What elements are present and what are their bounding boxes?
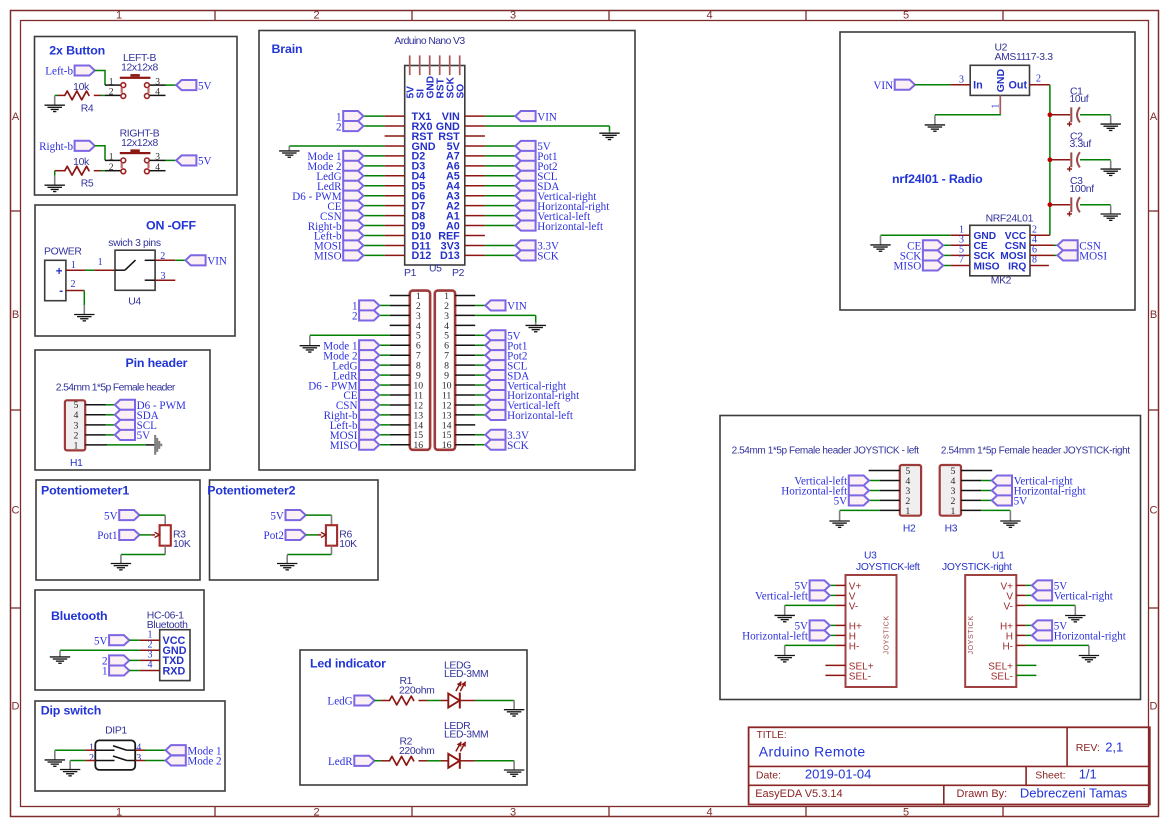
svg-text:JOYSTICK-right: JOYSTICK-right bbox=[942, 562, 1012, 573]
svg-text:IRQ: IRQ bbox=[1008, 261, 1026, 272]
svg-text:DIP1: DIP1 bbox=[105, 725, 127, 736]
svg-text:Vertical-left: Vertical-left bbox=[755, 591, 809, 603]
svg-text:MOSI: MOSI bbox=[1079, 251, 1107, 263]
svg-text:2: 2 bbox=[336, 121, 342, 133]
svg-text:3: 3 bbox=[161, 271, 166, 282]
svg-text:B: B bbox=[1150, 309, 1157, 321]
svg-text:1: 1 bbox=[990, 104, 1001, 109]
svg-text:Out: Out bbox=[1009, 79, 1028, 91]
svg-text:4: 4 bbox=[706, 806, 712, 818]
svg-text:1: 1 bbox=[116, 9, 122, 21]
svg-text:D: D bbox=[1150, 701, 1158, 713]
svg-text:2: 2 bbox=[109, 162, 114, 173]
svg-text:REV:: REV: bbox=[1076, 742, 1100, 754]
svg-text:3: 3 bbox=[510, 806, 516, 818]
svg-text:4: 4 bbox=[706, 9, 712, 21]
svg-text:5V: 5V bbox=[137, 430, 151, 442]
svg-text:D12: D12 bbox=[412, 250, 432, 262]
svg-text:3: 3 bbox=[510, 9, 516, 21]
svg-text:Mode 2: Mode 2 bbox=[187, 756, 221, 768]
svg-text:H1: H1 bbox=[70, 458, 83, 469]
svg-text:AMS1117-3.3: AMS1117-3.3 bbox=[995, 52, 1054, 63]
svg-text:Led indicator: Led indicator bbox=[310, 657, 386, 671]
svg-text:2.54mm 1*5p Female header: 2.54mm 1*5p Female header bbox=[56, 383, 176, 394]
svg-text:LED-3MM: LED-3MM bbox=[444, 729, 488, 740]
svg-text:A: A bbox=[12, 111, 20, 123]
svg-text:2: 2 bbox=[352, 311, 358, 323]
svg-text:16: 16 bbox=[413, 440, 423, 451]
svg-text:10K: 10K bbox=[173, 539, 191, 550]
svg-text:RXD: RXD bbox=[163, 665, 186, 677]
svg-text:SO: SO bbox=[455, 84, 466, 99]
svg-text:5V: 5V bbox=[198, 80, 212, 92]
svg-text:D13: D13 bbox=[440, 250, 460, 262]
svg-text:SCK: SCK bbox=[537, 251, 559, 263]
svg-text:swich 3 pins: swich 3 pins bbox=[108, 238, 161, 249]
svg-text:220ohm: 220ohm bbox=[399, 746, 434, 757]
svg-text:Horizontal-right: Horizontal-right bbox=[1054, 631, 1127, 643]
svg-text:100nf: 100nf bbox=[1070, 184, 1095, 195]
svg-text:5V: 5V bbox=[270, 510, 284, 522]
svg-text:Date:: Date: bbox=[756, 769, 781, 781]
svg-text:2: 2 bbox=[160, 251, 165, 262]
svg-text:EasyEDA V5.3.14: EasyEDA V5.3.14 bbox=[755, 788, 842, 800]
svg-text:NRF24L01: NRF24L01 bbox=[986, 213, 1034, 224]
svg-text:2.54mm 1*5p Female header JOYS: 2.54mm 1*5p Female header JOYSTICK - lef… bbox=[732, 446, 920, 457]
svg-text:8: 8 bbox=[1032, 255, 1037, 266]
svg-text:Potentiometer1: Potentiometer1 bbox=[41, 484, 129, 498]
svg-text:MISO: MISO bbox=[894, 261, 922, 273]
svg-text:1: 1 bbox=[950, 506, 955, 517]
svg-text:2: 2 bbox=[71, 279, 76, 290]
svg-text:Debreczeni Tamas: Debreczeni Tamas bbox=[1020, 786, 1128, 801]
svg-text:LedR: LedR bbox=[328, 756, 353, 768]
svg-text:Right-b: Right-b bbox=[39, 141, 73, 153]
svg-text:1: 1 bbox=[116, 806, 122, 818]
svg-text:2.54mm 1*5p Female header JOYS: 2.54mm 1*5p Female header JOYSTICK-right bbox=[941, 446, 1130, 457]
svg-text:Brain: Brain bbox=[272, 42, 303, 56]
svg-text:5: 5 bbox=[903, 806, 909, 818]
svg-text:16: 16 bbox=[442, 440, 452, 451]
svg-text:1: 1 bbox=[74, 440, 79, 451]
svg-text:Horizontal-left: Horizontal-left bbox=[507, 410, 574, 422]
svg-text:U4: U4 bbox=[128, 297, 141, 308]
svg-text:LedG: LedG bbox=[327, 696, 352, 708]
svg-text:GND: GND bbox=[995, 69, 1007, 93]
svg-text:Horizontal-left: Horizontal-left bbox=[742, 631, 809, 643]
svg-text:SEL-: SEL- bbox=[849, 671, 871, 682]
svg-text:12x12x8: 12x12x8 bbox=[121, 63, 158, 74]
svg-text:2x Button: 2x Button bbox=[49, 44, 105, 58]
svg-text:2019-01-04: 2019-01-04 bbox=[805, 766, 872, 781]
svg-text:A: A bbox=[1150, 111, 1158, 123]
svg-text:TITLE:: TITLE: bbox=[757, 730, 787, 741]
svg-text:JOYSTICK: JOYSTICK bbox=[881, 615, 890, 654]
svg-text:C: C bbox=[12, 505, 20, 517]
svg-text:JOYSTICK-left: JOYSTICK-left bbox=[856, 562, 920, 573]
svg-text:SEL-: SEL- bbox=[991, 671, 1013, 682]
svg-text:H-: H- bbox=[849, 641, 860, 652]
svg-text:VIN: VIN bbox=[873, 80, 893, 92]
svg-text:2,1: 2,1 bbox=[1105, 740, 1123, 755]
svg-text:R4: R4 bbox=[81, 103, 94, 114]
svg-text:2: 2 bbox=[313, 9, 319, 21]
svg-text:5V: 5V bbox=[834, 496, 848, 508]
svg-text:Dip switch: Dip switch bbox=[41, 704, 101, 718]
svg-text:Potentiometer2: Potentiometer2 bbox=[207, 484, 295, 498]
svg-text:2: 2 bbox=[313, 806, 319, 818]
svg-text:VIN: VIN bbox=[537, 111, 557, 123]
svg-text:1: 1 bbox=[905, 506, 910, 517]
svg-text:D: D bbox=[12, 701, 20, 713]
svg-text:H-: H- bbox=[1002, 641, 1013, 652]
svg-text:3: 3 bbox=[136, 753, 141, 764]
svg-text:U3: U3 bbox=[864, 551, 877, 562]
svg-text:5V: 5V bbox=[104, 510, 118, 522]
svg-text:Pin header: Pin header bbox=[126, 356, 188, 370]
svg-text:-: - bbox=[59, 286, 63, 298]
svg-text:5V: 5V bbox=[94, 635, 108, 647]
svg-text:P2: P2 bbox=[452, 268, 465, 279]
svg-text:Vertical-right: Vertical-right bbox=[1054, 591, 1114, 603]
svg-text:Arduino Nano V3: Arduino Nano V3 bbox=[394, 36, 465, 47]
svg-text:ON -OFF: ON -OFF bbox=[146, 219, 196, 233]
svg-text:MISO: MISO bbox=[314, 251, 342, 263]
svg-text:U5: U5 bbox=[429, 264, 442, 275]
svg-text:+: + bbox=[56, 266, 63, 278]
svg-text:10k: 10k bbox=[73, 157, 90, 168]
svg-text:B: B bbox=[12, 309, 19, 321]
svg-text:H2: H2 bbox=[903, 524, 916, 535]
svg-text:In: In bbox=[973, 79, 983, 91]
svg-text:MISO: MISO bbox=[330, 440, 358, 452]
svg-text:U1: U1 bbox=[992, 551, 1005, 562]
svg-text:P1: P1 bbox=[404, 268, 417, 279]
svg-text:POWER: POWER bbox=[44, 247, 82, 258]
svg-text:R5: R5 bbox=[81, 179, 94, 190]
svg-text:5: 5 bbox=[903, 9, 909, 21]
svg-text:MK2: MK2 bbox=[991, 276, 1012, 287]
svg-text:1/1: 1/1 bbox=[1079, 766, 1097, 781]
svg-text:5V: 5V bbox=[198, 156, 212, 168]
svg-text:2: 2 bbox=[1036, 74, 1041, 85]
svg-text:2: 2 bbox=[109, 87, 114, 98]
svg-text:Drawn By:: Drawn By: bbox=[957, 788, 1008, 800]
svg-text:2: 2 bbox=[89, 753, 94, 764]
svg-text:MISO: MISO bbox=[974, 261, 1000, 272]
svg-text:SCK: SCK bbox=[507, 440, 529, 452]
svg-text:LED-3MM: LED-3MM bbox=[444, 669, 488, 680]
svg-text:Left-b: Left-b bbox=[45, 66, 73, 78]
svg-text:VIN: VIN bbox=[507, 301, 527, 313]
svg-text:220ohm: 220ohm bbox=[399, 686, 434, 697]
svg-text:3.3uf: 3.3uf bbox=[1070, 139, 1092, 150]
svg-text:3: 3 bbox=[959, 74, 964, 85]
svg-text:JOYSTICK: JOYSTICK bbox=[966, 615, 975, 654]
svg-text:Horizontal-left: Horizontal-left bbox=[537, 221, 604, 233]
svg-text:C: C bbox=[1150, 505, 1158, 517]
svg-text:5V: 5V bbox=[1014, 496, 1028, 508]
svg-text:Arduino Remote: Arduino Remote bbox=[759, 744, 866, 760]
svg-text:V-: V- bbox=[1004, 601, 1013, 612]
svg-text:H3: H3 bbox=[945, 524, 958, 535]
svg-text:12x12x8: 12x12x8 bbox=[121, 138, 158, 149]
svg-text:10K: 10K bbox=[339, 539, 357, 550]
svg-text:7: 7 bbox=[959, 255, 964, 266]
svg-text:Pot2: Pot2 bbox=[264, 530, 284, 542]
svg-text:10k: 10k bbox=[73, 82, 90, 93]
svg-text:1: 1 bbox=[71, 260, 76, 271]
svg-text:VIN: VIN bbox=[207, 256, 227, 268]
svg-text:Bluetooth: Bluetooth bbox=[51, 609, 107, 623]
svg-text:10uf: 10uf bbox=[1070, 94, 1089, 105]
svg-text:nrf24l01 - Radio: nrf24l01 - Radio bbox=[892, 172, 983, 186]
svg-text:1: 1 bbox=[98, 257, 103, 268]
svg-text:V-: V- bbox=[849, 601, 858, 612]
svg-text:Sheet:: Sheet: bbox=[1035, 769, 1065, 781]
svg-text:1: 1 bbox=[102, 666, 108, 678]
svg-text:4: 4 bbox=[148, 660, 153, 671]
svg-text:Pot1: Pot1 bbox=[97, 530, 117, 542]
